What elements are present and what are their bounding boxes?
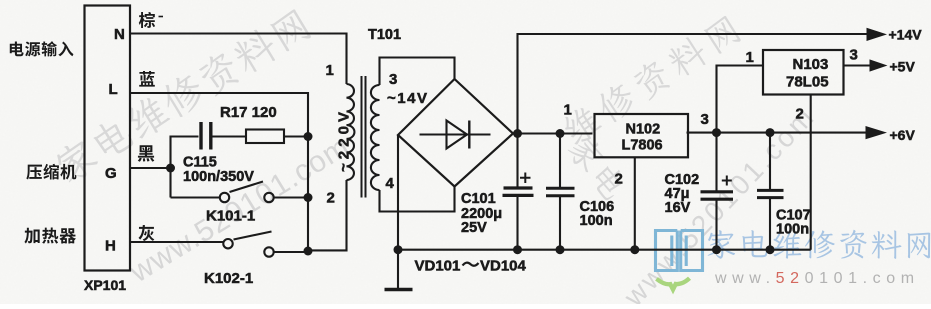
capacitor C107	[757, 133, 784, 250]
svg-text:~14V: ~14V	[387, 90, 427, 107]
svg-text:2: 2	[327, 190, 335, 207]
label 压缩机	[26, 164, 76, 180]
node G junction	[166, 164, 175, 173]
node rail junction bridge	[394, 245, 403, 254]
arrow +14V	[867, 28, 888, 41]
wire N brown to T101 primary pin 1	[131, 34, 347, 85]
ground	[385, 250, 413, 290]
regulator N102 box	[595, 114, 689, 157]
wire +14V rail	[518, 34, 868, 134]
watermark diagonal text 2	[565, 133, 630, 203]
svg-text:1: 1	[326, 62, 334, 79]
svg-text:T101: T101	[368, 27, 401, 43]
wire secondary pin 4 to bridge	[380, 187, 455, 212]
label 加热器	[24, 228, 76, 244]
node C102 top junction	[712, 128, 721, 137]
watermark diagonal text 3	[559, 13, 742, 148]
transformer T101 primary winding	[347, 84, 355, 180]
node rail junction C106	[556, 245, 565, 254]
wire N103 pin 2 ground drop	[810, 95, 812, 250]
node C107 top junction	[766, 128, 775, 137]
svg-text:25V: 25V	[461, 220, 487, 236]
label 黑 black	[138, 145, 155, 161]
wire secondary pin 3 to bridge	[380, 58, 455, 86]
svg-text:16V: 16V	[665, 200, 691, 216]
wire N102 pin 2 to rail	[634, 157, 636, 249]
node rail junction C107	[766, 245, 775, 254]
wire L blue to bus	[131, 93, 309, 251]
svg-text:R17 120: R17 120	[220, 104, 277, 121]
svg-text:K102-1: K102-1	[204, 270, 253, 287]
capacitor C102	[701, 133, 734, 250]
transformer T101 core	[362, 76, 366, 198]
svg-text:100n: 100n	[776, 222, 809, 238]
svg-text:L7806: L7806	[622, 138, 663, 154]
svg-text:VD104: VD104	[480, 258, 527, 275]
capacitor C101	[503, 134, 534, 250]
switch K101-1	[171, 182, 309, 203]
wire G black	[131, 167, 171, 169]
svg-text:N102: N102	[626, 122, 661, 138]
svg-text:1: 1	[564, 102, 572, 119]
svg-text:4: 4	[386, 175, 395, 192]
capacitor C115	[201, 122, 246, 150]
svg-text:XP101: XP101	[84, 277, 126, 293]
wire H gray	[131, 241, 224, 243]
svg-text:N: N	[114, 26, 125, 43]
svg-text:VD101: VD101	[415, 258, 461, 275]
svg-text:G: G	[105, 165, 117, 182]
label 蓝 blue	[139, 71, 155, 87]
svg-text:K101-1: K101-1	[206, 208, 255, 225]
bridge rectifier internal diode	[420, 121, 491, 149]
resistor R17	[246, 130, 308, 144]
capacitor C106	[546, 134, 575, 250]
switch K102-1	[223, 232, 308, 257]
svg-text:C101: C101	[461, 191, 496, 207]
transformer T101 secondary winding	[371, 85, 380, 190]
watermark logo text	[708, 230, 931, 259]
svg-text:3: 3	[850, 47, 858, 64]
svg-text:3: 3	[701, 111, 709, 128]
watermark logo book icon	[656, 231, 703, 271]
wire N103 input riser	[717, 66, 764, 133]
svg-text:L: L	[109, 81, 118, 98]
svg-text:2: 2	[796, 106, 804, 123]
svg-text:+6V: +6V	[890, 127, 916, 143]
arrow +5V	[870, 59, 888, 71]
node bus K102 junction	[304, 247, 313, 256]
node bridge output junction	[513, 129, 522, 138]
node rail junction C102	[712, 245, 721, 254]
label 棕 brown	[139, 12, 155, 28]
wire snubber left branch	[171, 137, 199, 198]
node rail junction C101	[513, 245, 522, 254]
node rail junction N102 pin2	[630, 245, 639, 254]
label VD101~VD104	[415, 258, 527, 275]
regulator N103 box	[763, 50, 844, 95]
connector XP101 box	[85, 6, 131, 271]
node C106 top junction	[556, 129, 565, 138]
svg-text:H: H	[105, 238, 116, 255]
svg-text:+5V: +5V	[890, 59, 916, 75]
svg-text:2: 2	[615, 171, 623, 188]
wire T101 primary return	[308, 180, 347, 250]
wire bridge negative to rail	[397, 135, 399, 250]
wire +6V rail	[687, 132, 869, 134]
svg-text:www.520101.com: www.520101.com	[714, 270, 920, 287]
node bus K101 junction	[304, 193, 313, 202]
label 灰 gray	[138, 225, 154, 241]
svg-text:+14V: +14V	[889, 27, 923, 43]
svg-text:1: 1	[746, 49, 754, 66]
arrow +6V	[866, 126, 888, 139]
svg-text:100n/350V: 100n/350V	[183, 169, 254, 185]
bridge rectifier VD101-VD104 diamond	[398, 79, 513, 187]
label 电源输入	[10, 41, 74, 56]
wire N103 output	[844, 64, 871, 66]
svg-text:3: 3	[389, 71, 397, 88]
wire bridge output	[513, 132, 593, 134]
watermark diagonal text 1	[51, 6, 312, 186]
wire ground rail	[398, 249, 811, 251]
svg-text:78L05: 78L05	[786, 74, 829, 91]
svg-text:N103: N103	[793, 56, 829, 73]
svg-text:100n: 100n	[580, 213, 613, 229]
node bus snubber junction	[304, 132, 313, 141]
